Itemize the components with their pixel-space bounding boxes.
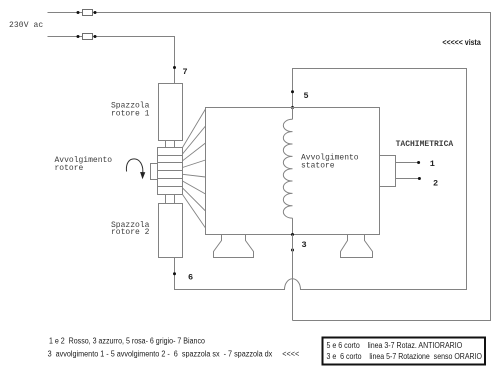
rotation arrow [126, 159, 142, 173]
tach wire 2 end dot [418, 177, 421, 180]
fan wire 7 [183, 188, 206, 211]
rotation note box [323, 338, 486, 365]
wire phase A: top rail, right side, bottom rail [48, 13, 491, 321]
svg-text:7: 7 [183, 67, 188, 77]
fan wire 3 [183, 143, 206, 161]
tach wire 2 [396, 178, 420, 180]
svg-text:1: 1 [430, 159, 435, 169]
fan wire 8 [183, 195, 206, 229]
svg-text:3 avvolgimento 1 - 5 avvolgim: 3 avvolgimento 1 - 5 avvolgimento 2 - 6 … [48, 350, 300, 359]
node 3 junction dot on stator box edge [291, 233, 294, 236]
stator box [206, 108, 380, 235]
svg-text:statore: statore [301, 162, 335, 171]
motor foot right [341, 235, 373, 258]
node 6 junction dot [173, 272, 176, 275]
svg-text:rotore: rotore [55, 164, 84, 173]
svg-text:1 e 2 Rosso, 3 azzurro, 5 ros: 1 e 2 Rosso, 3 azzurro, 5 rosa- 6 grigio… [49, 337, 205, 346]
wire brush2 to node6, bottom run with hop, right side, inner top, down to node 5 [175, 69, 467, 290]
fuse F2 [83, 34, 93, 40]
junction dot F2 left [77, 35, 80, 38]
brush 2 stem [166, 195, 175, 204]
stator winding coil lead-in wires [292, 108, 294, 235]
svg-text:TACHIMETRICA: TACHIMETRICA [396, 140, 454, 149]
node 5 junction dot upper [291, 90, 294, 93]
tach wire 1 [396, 162, 419, 164]
fan wire 2 [183, 126, 206, 154]
brush spazzola rotore 1 [159, 84, 183, 141]
node 5 junction dot on stator box edge [291, 106, 294, 109]
wire node 3 down to bottom rail [292, 235, 294, 321]
tachometer connector box [380, 156, 396, 187]
svg-text:3 e 6 corto linea 5-7 Rota: 3 e 6 corto linea 5-7 Rotazione senso OR… [327, 352, 483, 361]
fan wire 4 [183, 160, 206, 168]
svg-text:2: 2 [433, 179, 438, 189]
fan wire 5 [183, 174, 206, 177]
svg-text:<<<<< vista: <<<<< vista [442, 38, 481, 47]
tach wire 1 end dot [417, 161, 420, 164]
motor foot left [214, 235, 254, 258]
svg-text:230V ac: 230V ac [9, 21, 43, 30]
wire phase B: to brush 1 [48, 37, 175, 84]
svg-text:rotore 2: rotore 2 [111, 228, 150, 237]
fan wire 1 [183, 109, 206, 148]
svg-text:3: 3 [302, 240, 307, 250]
svg-text:rotore 1: rotore 1 [111, 110, 150, 119]
junction dot F1 right [94, 11, 97, 14]
node 3 junction dot lower [291, 249, 294, 252]
svg-text:5 e 6 corto linea 3-7 Rotaz: 5 e 6 corto linea 3-7 Rotaz. ANTIORARIO [327, 341, 463, 350]
fuse F1 [83, 10, 93, 16]
commutator stack [158, 148, 183, 195]
brush spazzola rotore 2 [159, 204, 183, 258]
junction dot F2 right [94, 35, 97, 38]
junction dot F1 left [77, 11, 80, 14]
fan wire 6 [183, 181, 206, 194]
stator winding coil [283, 119, 292, 218]
node 7 junction dot [173, 66, 176, 69]
brush 1 stem [166, 141, 175, 148]
rotor core box [151, 164, 158, 180]
svg-text:6: 6 [188, 273, 193, 283]
svg-text:5: 5 [304, 91, 309, 101]
